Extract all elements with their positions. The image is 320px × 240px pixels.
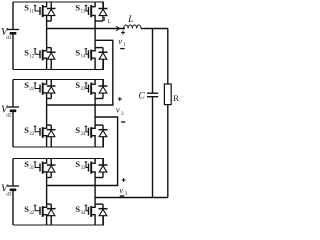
plus sign of v2 bbox=[118, 97, 122, 101]
H-bridge 1 top DC rail (wire) bbox=[13, 2, 103, 9]
wire left leg bridge 2 bbox=[46, 99, 48, 126]
switch S11 (MOSFET+diode, top-left) bbox=[34, 2, 56, 21]
svg-text:11: 11 bbox=[29, 9, 34, 14]
DC source Vd2 battery symbol bbox=[12, 80, 14, 108]
capacitor C bbox=[152, 29, 154, 93]
switch S34 (MOSFET+diode, bottom-right) bbox=[85, 204, 108, 225]
wire left leg bridge 1 bbox=[46, 21, 48, 48]
H-bridge 2 top DC rail (wire) bbox=[13, 80, 103, 87]
H-bridge 3 top DC rail (wire) bbox=[13, 159, 103, 166]
svg-text:21: 21 bbox=[29, 87, 34, 92]
switch S12 (MOSFET+diode, bottom-left) bbox=[34, 48, 56, 70]
svg-text:14: 14 bbox=[81, 54, 86, 59]
svg-text:d2: d2 bbox=[6, 112, 12, 118]
svg-text:L: L bbox=[127, 15, 133, 25]
svg-text:34: 34 bbox=[81, 211, 86, 216]
switch S23 (MOSFET+diode, top-right) bbox=[85, 80, 108, 99]
minus sign of v3 bbox=[120, 195, 124, 197]
switch S22 (MOSFET+diode, bottom-left) bbox=[34, 125, 56, 147]
switch S14 (MOSFET+diode, bottom-right) bbox=[85, 48, 108, 70]
svg-text:31: 31 bbox=[29, 166, 34, 171]
inductor L bbox=[124, 25, 141, 28]
svg-text:v: v bbox=[119, 185, 123, 195]
minus sign of v2 bbox=[121, 121, 125, 123]
minus sign of v1 bbox=[120, 48, 124, 50]
resistor R bbox=[167, 29, 169, 85]
switch S21 (MOSFET+diode, top-left) bbox=[34, 80, 56, 99]
wire bridge1 AC output (node a1) to inductor bbox=[47, 28, 124, 30]
H-bridge 3 bottom DC rail (wire) bbox=[13, 216, 103, 225]
svg-text:d1: d1 bbox=[6, 35, 12, 41]
svg-text:L: L bbox=[108, 20, 111, 25]
wire right leg bridge 2 bbox=[94, 99, 96, 126]
svg-text:d3: d3 bbox=[6, 191, 12, 197]
switch S24 (MOSFET+diode, bottom-right) bbox=[85, 125, 108, 147]
wire right leg bridge 3 bbox=[94, 178, 96, 205]
switch S31 (MOSFET+diode, top-left) bbox=[34, 159, 56, 178]
plus sign of v3 bbox=[122, 178, 126, 182]
svg-text:24: 24 bbox=[81, 132, 86, 137]
switch S32 (MOSFET+diode, bottom-left) bbox=[34, 204, 56, 225]
svg-text:22: 22 bbox=[29, 132, 34, 137]
svg-text:C: C bbox=[139, 92, 146, 102]
svg-text:v: v bbox=[118, 36, 122, 46]
wire bridge3 node b3 return to load bottom bbox=[95, 197, 168, 199]
svg-text:v: v bbox=[116, 105, 120, 115]
H-bridge 2 bottom DC rail (wire) bbox=[13, 137, 103, 147]
wire bridge2 node b2 to bridge3 node a3 bbox=[47, 117, 118, 186]
svg-text:33: 33 bbox=[81, 166, 86, 171]
H-bridge 1 bottom DC rail (wire) bbox=[13, 59, 103, 69]
svg-text:23: 23 bbox=[81, 87, 86, 92]
junction dot at inductor input bbox=[123, 27, 125, 29]
wire inductor to load top bbox=[141, 28, 168, 30]
svg-text:13: 13 bbox=[81, 9, 86, 14]
DC source Vd1 battery symbol bbox=[12, 2, 14, 30]
plus sign of v1 bbox=[121, 31, 125, 35]
wire bridge1 node b1 to bridge2 node a2 bbox=[47, 40, 113, 105]
switch S13 (MOSFET+diode, top-right) bbox=[85, 2, 108, 21]
wire left leg bridge 3 bbox=[46, 178, 48, 205]
svg-text:32: 32 bbox=[29, 211, 34, 216]
wire right leg bridge 1 bbox=[94, 21, 96, 48]
svg-text:R: R bbox=[173, 93, 179, 103]
switch S33 (MOSFET+diode, top-right) bbox=[85, 159, 108, 178]
current arrow iL bbox=[116, 26, 119, 30]
DC source Vd3 battery symbol bbox=[12, 159, 14, 187]
svg-text:12: 12 bbox=[29, 54, 34, 59]
